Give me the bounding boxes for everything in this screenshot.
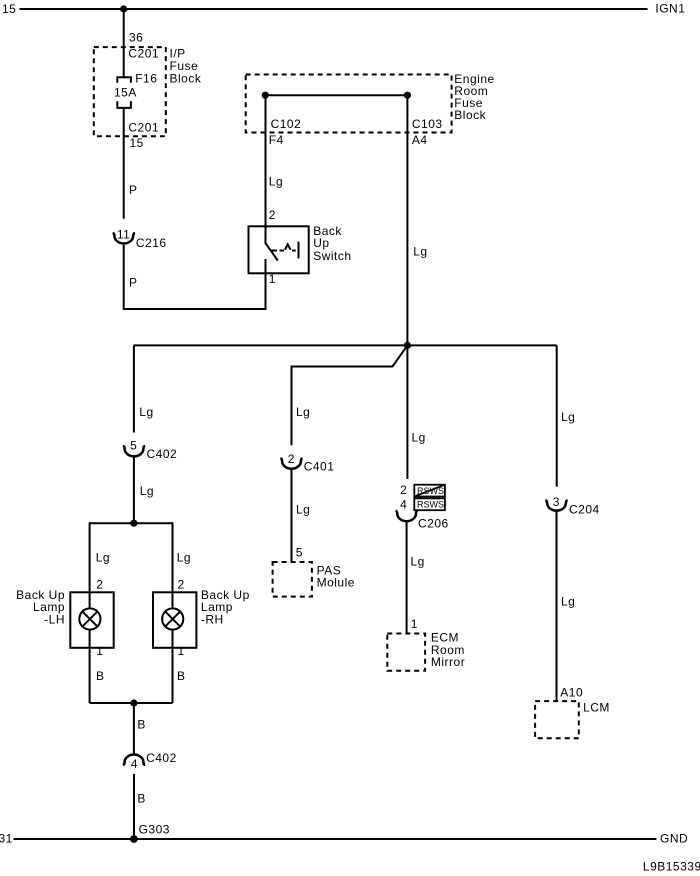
wire RH lamp to ground loop (B) bbox=[172, 630, 174, 704]
svg-text:RSWS: RSWS bbox=[417, 500, 444, 510]
svg-text:Block: Block bbox=[170, 72, 202, 86]
svg-text:2: 2 bbox=[96, 577, 103, 591]
LCM dashed box bbox=[535, 701, 579, 738]
svg-text:C201: C201 bbox=[128, 120, 159, 134]
svg-text:GND: GND bbox=[660, 832, 688, 846]
I/P fuse block dashed box bbox=[94, 47, 166, 136]
svg-text:Lg: Lg bbox=[139, 405, 153, 419]
lamp LH bulb bbox=[79, 608, 100, 629]
svg-text:2: 2 bbox=[269, 208, 276, 222]
net GND bottom rail bbox=[14, 838, 657, 840]
svg-text:2: 2 bbox=[178, 577, 185, 591]
main horizontal distribution wire bbox=[134, 344, 557, 346]
svg-text:5: 5 bbox=[296, 546, 303, 560]
wire C216 to back up switch pin 1 bbox=[124, 245, 266, 309]
svg-text:Molule: Molule bbox=[317, 575, 355, 589]
svg-text:G303: G303 bbox=[139, 823, 170, 837]
svg-text:Lg: Lg bbox=[413, 245, 427, 259]
svg-text:C201: C201 bbox=[128, 47, 159, 61]
svg-text:1: 1 bbox=[178, 644, 185, 658]
svg-text:A10: A10 bbox=[560, 685, 583, 699]
svg-text:15: 15 bbox=[130, 136, 144, 150]
svg-text:C402: C402 bbox=[146, 751, 177, 765]
svg-text:IGN1: IGN1 bbox=[655, 2, 685, 16]
svg-text:B: B bbox=[137, 717, 146, 731]
svg-text:Lg: Lg bbox=[561, 410, 575, 424]
diagonal branch wire to PAS bbox=[292, 345, 408, 445]
wire from IGN1 rail to fuse F16 bbox=[123, 9, 125, 77]
svg-text:C402: C402 bbox=[147, 447, 178, 461]
svg-text:Switch: Switch bbox=[313, 249, 351, 263]
wire C402 to ground G303 (B) bbox=[133, 774, 135, 839]
wire C204 to LCM (Lg) bbox=[556, 512, 558, 702]
engine room bus wire bbox=[265, 94, 407, 96]
svg-text:5: 5 bbox=[130, 439, 137, 453]
wire to C402 pin 4 (B) bbox=[133, 703, 135, 754]
branch wire to back up lamps bbox=[133, 345, 135, 432]
svg-text:-RH: -RH bbox=[201, 613, 224, 627]
svg-text:2: 2 bbox=[400, 483, 407, 497]
lamp RH bulb bbox=[162, 608, 183, 629]
svg-text:36: 36 bbox=[129, 31, 143, 45]
lamp loop top wire bbox=[90, 522, 173, 524]
wire C402 to lamp loop bbox=[133, 457, 135, 523]
svg-text:C103: C103 bbox=[412, 117, 443, 131]
ECM room mirror dashed box bbox=[387, 634, 425, 671]
junction main bbox=[404, 342, 411, 349]
connector C402 (pin 5) bbox=[123, 446, 145, 456]
svg-text:Lg: Lg bbox=[140, 484, 154, 498]
junction bus left bbox=[262, 92, 269, 99]
wire to RH lamp bbox=[172, 522, 174, 608]
svg-text:Lg: Lg bbox=[96, 550, 110, 564]
wire C102 F4 to back up switch pin 2 (Lg) bbox=[265, 95, 267, 243]
connector C206 bbox=[395, 511, 417, 521]
svg-text:B: B bbox=[177, 669, 186, 683]
switch contact bar bbox=[298, 242, 300, 259]
svg-text:Lg: Lg bbox=[296, 503, 310, 517]
svg-text:Lg: Lg bbox=[296, 405, 310, 419]
connector C401 (pin 2) bbox=[280, 458, 302, 468]
wire C206 to ECM (Lg) bbox=[406, 522, 408, 634]
switch blade bbox=[265, 243, 278, 261]
svg-text:F16: F16 bbox=[135, 71, 157, 85]
svg-text:15A: 15A bbox=[114, 86, 137, 100]
connector C216 bbox=[113, 233, 135, 243]
svg-text:31: 31 bbox=[0, 832, 13, 846]
switch linkage peak bbox=[285, 244, 291, 250]
junction G303 bbox=[130, 835, 138, 843]
svg-text:Lg: Lg bbox=[411, 555, 425, 569]
svg-text:Block: Block bbox=[454, 108, 486, 122]
twisted wire tag RSWS bbox=[414, 498, 445, 510]
svg-text:Lg: Lg bbox=[269, 175, 283, 189]
svg-text:F4: F4 bbox=[269, 133, 284, 147]
svg-text:C216: C216 bbox=[136, 236, 167, 250]
junction top rail bbox=[120, 5, 127, 12]
svg-text:B: B bbox=[96, 669, 105, 683]
back up lamp RH box bbox=[153, 592, 196, 648]
wire LH lamp to ground loop (B) bbox=[89, 630, 91, 704]
svg-text:Lg: Lg bbox=[412, 431, 426, 445]
svg-text:B: B bbox=[137, 792, 146, 806]
svg-text:-LH: -LH bbox=[44, 613, 65, 627]
svg-text:2: 2 bbox=[288, 452, 295, 466]
svg-text:1: 1 bbox=[96, 644, 103, 658]
switch linkage dashes bbox=[272, 250, 278, 252]
junction bus right bbox=[404, 92, 411, 99]
svg-text:15: 15 bbox=[2, 2, 16, 16]
net IGN1 top rail bbox=[20, 8, 648, 10]
junction lamp bottom bbox=[130, 699, 137, 706]
svg-text:C204: C204 bbox=[569, 502, 600, 516]
svg-text:11: 11 bbox=[117, 228, 130, 242]
wire to LH lamp bbox=[89, 522, 91, 608]
PAS module dashed box bbox=[273, 562, 312, 597]
svg-text:P: P bbox=[129, 276, 138, 290]
svg-text:4: 4 bbox=[131, 757, 138, 771]
wire fuse to C216 (P) bbox=[123, 108, 125, 219]
svg-text:4: 4 bbox=[400, 498, 407, 512]
back up switch box U? bbox=[249, 226, 309, 273]
svg-text:3: 3 bbox=[553, 495, 560, 509]
lamp loop bottom wire bbox=[90, 702, 173, 704]
svg-text:A4: A4 bbox=[412, 133, 428, 147]
svg-text:C206: C206 bbox=[418, 517, 449, 531]
twisted wire tag RSWS (crossed) bbox=[414, 485, 445, 497]
Engine Room fuse block dashed box bbox=[246, 75, 452, 133]
svg-text:Lg: Lg bbox=[177, 550, 191, 564]
connector C204 (pin 3) bbox=[545, 500, 567, 510]
svg-text:Mirror: Mirror bbox=[431, 655, 465, 669]
svg-text:1: 1 bbox=[411, 617, 418, 631]
connector C402 (pin 4, flipped) bbox=[123, 755, 145, 765]
svg-text:LCM: LCM bbox=[583, 701, 610, 715]
wire C401 to PAS module (Lg) bbox=[291, 470, 293, 562]
svg-text:Up: Up bbox=[313, 236, 329, 250]
branch wire to C204 bbox=[556, 345, 558, 486]
svg-text:C102: C102 bbox=[271, 117, 302, 131]
fuse F16 15A bbox=[117, 77, 131, 82]
switch bottom stub bbox=[265, 259, 267, 273]
wire C103 A4 down to junction and C206 bbox=[406, 95, 408, 479]
svg-text:1: 1 bbox=[269, 272, 276, 286]
back up lamp LH box bbox=[70, 592, 113, 648]
switch linkage dash bbox=[292, 250, 296, 252]
svg-text:L9B15339: L9B15339 bbox=[643, 860, 700, 874]
svg-text:Lg: Lg bbox=[561, 595, 575, 609]
junction lamp top bbox=[130, 520, 137, 527]
svg-text:P: P bbox=[129, 183, 138, 197]
svg-text:C401: C401 bbox=[304, 460, 335, 474]
